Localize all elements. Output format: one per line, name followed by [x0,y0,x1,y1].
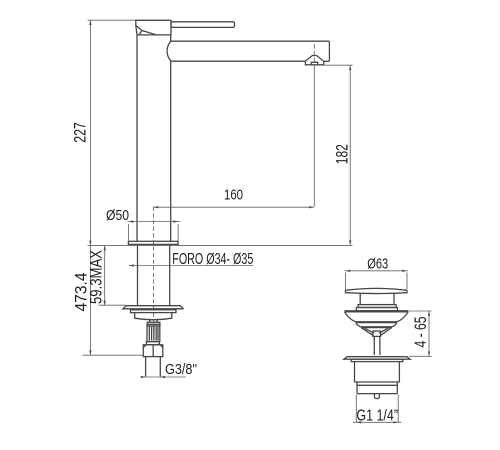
dimension 59.3MAX line [104,246,106,306]
faucet handle cap [136,20,171,35]
drain cone inner [365,328,389,333]
svg-text:182: 182 [333,144,352,164]
4-65 top extension [408,310,431,312]
shank below deck right [169,246,171,306]
faucet body right edge lower [170,61,172,241]
drain throat [373,331,381,336]
G1 1/4 dimension line [353,421,402,423]
4-65 bottom arrow [428,352,430,357]
arrow bottom 227 at deck [89,241,91,246]
drain stem [360,293,394,304]
drain cone left [361,328,373,336]
drain cap rim [345,290,407,293]
G1 1/4 left arrow [356,421,361,423]
hex nut facet line [152,345,154,357]
drain O63 dimension line [345,270,408,272]
FORO leader arrow [129,264,134,266]
4-65 top arrow [428,311,430,316]
O63 right arrow [402,270,407,272]
drain second tier [356,323,397,328]
svg-text:G3/8": G3/8" [165,361,197,378]
arrow bottom 59.3 [104,301,106,306]
dimension O50 extension lines [128,224,178,241]
faucet body left edge [136,35,138,241]
aerator inner notch [311,62,317,65]
spout top edge [171,40,330,42]
svg-text:Ø63: Ø63 [367,256,388,273]
spout bottom edge left segment [171,60,305,62]
drain collar upper [358,305,396,308]
dimension O50 line [128,221,181,223]
faucet top extension line [88,19,136,21]
washer plate [123,306,184,309]
shank below deck left [137,246,139,306]
O63 extension lines [345,273,407,290]
arrow bottom 182 [349,241,351,246]
svg-text:4 - 65: 4 - 65 [411,317,430,348]
cup [135,313,172,320]
arrow right 160 [309,206,314,208]
ribs [149,327,158,341]
handle cap inner lever lines [136,26,156,35]
spout rounded left end [167,41,171,61]
arrow bottom 473.4 [89,350,91,355]
4-65 dimension line [428,311,430,356]
extension aerator bottom [324,64,353,66]
lever bar [171,22,235,28]
collar [147,322,160,326]
svg-text:Ø50: Ø50 [106,207,129,224]
aerator centerline [313,44,315,67]
faucet centerline [153,207,155,332]
drain bell left side [345,312,356,322]
svg-text:G1 1/4”: G1 1/4” [356,407,398,424]
faucet body right edge upper [170,35,172,41]
hex nut chamfer [143,345,163,348]
svg-text:FORO Ø34- Ø35: FORO Ø34- Ø35 [172,251,253,268]
connector bottom band [146,342,159,345]
drain collar lower [356,308,397,311]
G3/8 dimension line [142,376,186,378]
arrow left O50 [128,220,133,222]
extension washer top [99,304,127,306]
aerator housing [305,56,323,65]
drain bell top plate [345,311,409,312]
arrow top 227 [89,20,91,25]
G1 1/4 right arrow [393,421,398,423]
extension line bottom 473.4 [83,354,144,356]
arrow top 59.3 [104,246,106,251]
arrow right O50 [173,220,178,222]
svg-text:59.3MAX: 59.3MAX [87,250,106,304]
drain bell right side [397,312,408,322]
FORO leader line [129,265,253,267]
drain bell bottom lines [356,321,397,324]
drain lower body [355,362,400,382]
spout right end edge [328,41,330,61]
G3/8 left arrow [141,376,146,378]
drain cone right [381,328,392,336]
4-65 bottom extension [409,355,431,357]
dimension 227/473.4 line [89,20,91,355]
supply tube [146,357,161,377]
locknut ring [131,310,177,313]
drain flange lip [351,359,403,361]
dimension 182 line [349,65,351,245]
faucet base flange [128,241,178,244]
drain cap top [345,288,407,290]
svg-text:160: 160 [224,187,243,204]
arrow top 182 [349,65,351,70]
neck [150,319,157,323]
G3/8 right arrow [160,376,165,378]
ribbed connector [147,326,160,342]
spout bottom edge right segment [324,60,330,62]
G1 1/4 extension lines [356,395,398,423]
deck line [88,244,353,246]
drain threaded ring [357,382,397,394]
drain lower flange [344,357,410,360]
hex nut [143,345,163,357]
aerator centerline lower [313,67,315,207]
drain pin [374,394,379,399]
arrow left 160 [154,206,159,208]
svg-text:227: 227 [71,122,90,143]
O63 left arrow [345,270,350,272]
dimension 160 line [154,206,314,208]
drain tailpipe [374,336,380,355]
